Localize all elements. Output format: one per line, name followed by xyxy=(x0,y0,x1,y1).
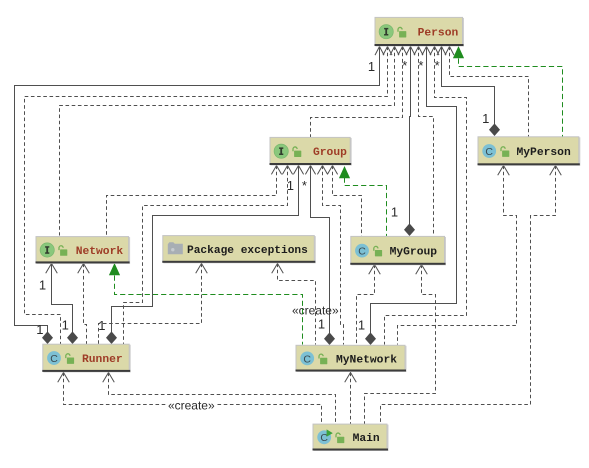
svg-text:1: 1 xyxy=(368,59,375,74)
interface Network xyxy=(36,237,131,264)
svg-text:«create»: «create» xyxy=(168,398,215,412)
class Runner xyxy=(42,344,130,372)
edge Runner-Person composition xyxy=(15,47,385,345)
edge Runner-Group composition xyxy=(98,166,303,345)
svg-text:1: 1 xyxy=(39,278,46,293)
edge MyNetwork-Network realization xyxy=(109,263,303,345)
edge Main-Runner create dependency xyxy=(58,373,322,425)
interface Person xyxy=(375,17,465,46)
class MyGroup xyxy=(350,236,446,265)
edge MyPerson-Person composition xyxy=(435,47,500,137)
svg-text:C: C xyxy=(303,353,311,365)
edge MyNetwork-Group composition xyxy=(302,166,335,346)
edge MyNetwork-exceptions dependency xyxy=(272,264,316,345)
edge MyPerson-Person dependency xyxy=(445,47,529,137)
edge MyPerson-Person realization xyxy=(453,46,563,137)
label create near MyNetwork xyxy=(292,303,339,317)
svg-text:C: C xyxy=(485,146,493,158)
svg-text:1: 1 xyxy=(391,205,398,220)
edge Runner-Person dependency xyxy=(25,47,393,345)
edge Main-MyPerson dependency xyxy=(381,166,562,425)
svg-text:Person: Person xyxy=(418,28,459,40)
svg-text:MyNetwork: MyNetwork xyxy=(336,354,397,366)
edge MyNetwork-MyPerson dependency xyxy=(398,166,517,345)
package exceptions xyxy=(162,236,315,264)
svg-text:1: 1 xyxy=(318,317,325,332)
class MyPerson xyxy=(478,137,581,166)
svg-text:1: 1 xyxy=(36,322,43,337)
svg-text:*: * xyxy=(418,58,423,73)
edge MyGroup-Group dependency xyxy=(327,166,361,237)
class MyNetwork xyxy=(296,345,407,372)
svg-text:*: * xyxy=(402,58,407,73)
edge Network-Person dependency xyxy=(60,47,400,236)
svg-text:1: 1 xyxy=(62,318,69,333)
svg-text:MyGroup: MyGroup xyxy=(390,247,438,259)
svg-text:Group: Group xyxy=(313,147,347,159)
svg-text:*: * xyxy=(302,178,307,193)
edge Runner-Network dependency xyxy=(78,264,90,345)
svg-text:1: 1 xyxy=(482,111,489,126)
edge MyGroup-Group realization xyxy=(339,166,387,237)
edge MyGroup-Person dependency xyxy=(414,47,434,237)
svg-text:Main: Main xyxy=(353,433,380,445)
edge MyGroup-Person composition xyxy=(391,47,415,237)
svg-text:Runner: Runner xyxy=(82,354,123,366)
svg-text:*: * xyxy=(435,58,440,73)
class Main runnable xyxy=(313,424,389,451)
svg-text:Network: Network xyxy=(76,246,124,258)
svg-text:1: 1 xyxy=(358,318,365,333)
edge Main-MyNetwork dependency xyxy=(345,373,357,425)
edge MyNetwork-Group dependency xyxy=(317,166,343,345)
svg-text:Package exceptions: Package exceptions xyxy=(187,245,308,257)
edge Runner-Network composition xyxy=(39,264,78,345)
edge Runner-Group dependency xyxy=(124,166,293,345)
interface Group xyxy=(270,137,352,165)
edge Main-MyGroup dependency xyxy=(365,265,436,425)
edge Runner-exceptions dependency xyxy=(99,264,208,345)
edge Group-Person dependency xyxy=(311,47,408,138)
edge MyNetwork-Person dependency xyxy=(385,47,467,345)
edge MyNetwork-MyGroup dependency xyxy=(357,265,381,345)
svg-text:C: C xyxy=(50,353,58,365)
edge Network-Group dependency xyxy=(107,166,282,236)
svg-text:MyPerson: MyPerson xyxy=(517,147,571,159)
svg-text:C: C xyxy=(358,246,366,258)
edge MyNetwork-Person composition xyxy=(358,47,457,346)
edge Main-Runner dependency xyxy=(103,373,336,425)
svg-text:1: 1 xyxy=(98,318,105,333)
svg-text:«create»: «create» xyxy=(292,303,339,317)
